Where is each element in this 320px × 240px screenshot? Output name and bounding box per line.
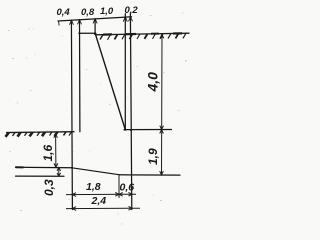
node tick 0,8/1,0 xyxy=(93,19,97,23)
wire step extension line right xyxy=(124,129,172,131)
ground right (backfill surface) xyxy=(95,33,190,40)
node tick 0,4 left xyxy=(70,20,74,24)
svg-text:0,8: 0,8 xyxy=(81,7,95,18)
wire extension slant top xyxy=(94,19,96,33)
svg-text:0,3: 0,3 xyxy=(42,179,56,196)
svg-text:1,9: 1,9 xyxy=(146,148,160,165)
wall footing bottom sloped xyxy=(72,168,119,175)
dimension row 1,8 / 0,6 xyxy=(66,192,136,196)
svg-text:1,8: 1,8 xyxy=(86,181,101,193)
wall back face batter slant xyxy=(95,33,125,129)
wire top dimension line xyxy=(58,17,132,21)
dimension 1,6 left vertical xyxy=(54,134,58,168)
wall back face lower vertical xyxy=(130,14,131,210)
svg-text:2,4: 2,4 xyxy=(91,195,107,207)
ink blob at extension line start xyxy=(16,166,23,168)
paper noise xyxy=(9,12,184,224)
wire extension slope-break bottom xyxy=(118,175,120,198)
hatch marks left ground xyxy=(6,133,9,137)
ground left (front surface) xyxy=(6,132,75,137)
svg-text:0,2: 0,2 xyxy=(125,5,139,16)
svg-text:1,6: 1,6 xyxy=(41,144,55,161)
svg-text:0,6: 0,6 xyxy=(120,182,135,194)
dimension 0,3 left vertical xyxy=(57,167,61,176)
dimension row 2,4 xyxy=(66,207,140,211)
node tick 0,2 right xyxy=(129,17,133,21)
svg-text:0,4: 0,4 xyxy=(57,7,71,18)
dimension 4,0 / 1,9 right vertical xyxy=(160,34,164,175)
svg-text:4,0: 4,0 xyxy=(145,72,161,93)
wire left extension line lower (footing bottom right level) xyxy=(16,175,65,177)
wall crest top edge xyxy=(79,32,96,34)
node tick 1,0/0,2 xyxy=(123,17,127,21)
wall U front face upper xyxy=(79,20,81,132)
wire left extension line upper (footing bottom left level) xyxy=(16,166,72,168)
svg-text:1,0: 1,0 xyxy=(100,6,114,17)
hatch marks right ground xyxy=(100,35,103,40)
node tick 0,4/0,8 xyxy=(78,20,82,24)
paper background xyxy=(0,0,190,229)
wire footing bottom flat + right extension xyxy=(119,174,180,176)
wire extension line footing left edge (full height) xyxy=(71,20,72,209)
wire extension slant bottom xyxy=(124,14,126,130)
junction ink blobs xyxy=(71,32,132,168)
